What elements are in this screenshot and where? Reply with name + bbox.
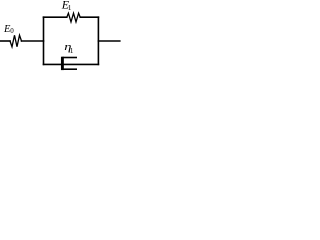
svg-text:1: 1 bbox=[70, 46, 74, 55]
svg-text:0: 0 bbox=[10, 27, 14, 35]
svg-text:1: 1 bbox=[68, 3, 72, 12]
